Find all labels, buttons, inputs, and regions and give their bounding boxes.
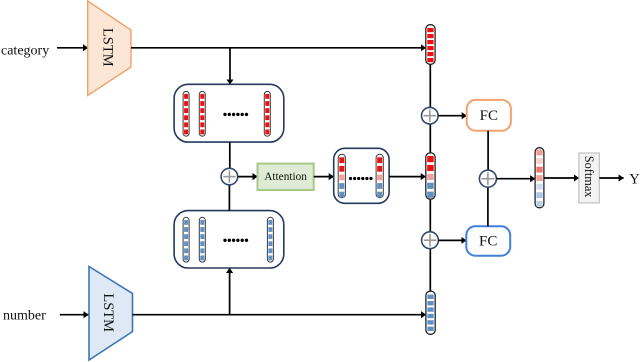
svg-text:FC: FC [480, 108, 498, 124]
svg-text:LSTM: LSTM [99, 28, 115, 67]
svg-text:category: category [1, 44, 49, 59]
svg-text:FC: FC [479, 234, 497, 250]
svg-text:Attention: Attention [264, 171, 307, 183]
svg-text:number: number [3, 309, 46, 324]
svg-text:Softmax: Softmax [582, 156, 596, 198]
svg-text:LSTM: LSTM [100, 293, 116, 332]
svg-text:Y: Y [629, 171, 640, 187]
